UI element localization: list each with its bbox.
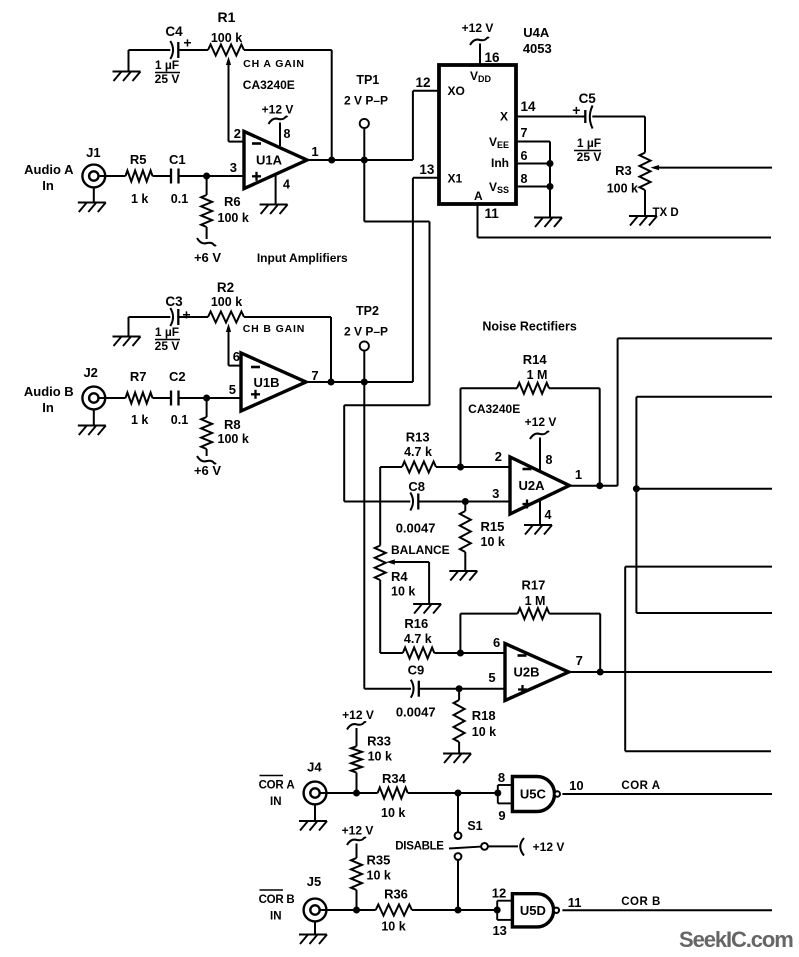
svg-text:R4: R4: [391, 569, 408, 584]
svg-text:2 V P–P: 2 V P–P: [344, 94, 388, 108]
node: pin6 junction: [547, 160, 554, 167]
svg-text:10: 10: [569, 778, 583, 793]
svg-text:BALANCE: BALANCE: [391, 543, 450, 557]
wire R7 to C2: [153, 397, 172, 399]
svg-text:12: 12: [492, 886, 506, 901]
svg-text:+12 V: +12 V: [462, 21, 494, 35]
svg-text:In: In: [42, 400, 54, 415]
resistor R33 10k: [351, 746, 362, 772]
svg-text:TP2: TP2: [356, 304, 379, 318]
svg-text:4053: 4053: [523, 41, 552, 56]
node: J5/R35 junction: [353, 907, 360, 914]
resistor R5 1k: [126, 171, 153, 182]
ground for J5: [314, 921, 316, 934]
svg-text:100 k: 100 k: [218, 432, 249, 446]
svg-text:6: 6: [233, 349, 240, 364]
svg-text:U5D: U5D: [520, 903, 546, 918]
svg-text:Noise Rectifiers: Noise Rectifiers: [482, 320, 577, 334]
node: J4/R33 junction: [353, 790, 360, 797]
op-amp U1A: [244, 131, 307, 188]
wire C4 to R1: [178, 49, 208, 51]
resistor R15 10k: [464, 502, 466, 512]
svg-text:3: 3: [230, 160, 237, 175]
resistor R7 1k: [126, 393, 153, 404]
svg-text:12: 12: [415, 75, 430, 90]
svg-text:4: 4: [545, 508, 552, 522]
feedback wire R1 to U1A output: [244, 49, 332, 51]
svg-text:R8: R8: [224, 417, 241, 432]
svg-text:14: 14: [520, 99, 536, 114]
NAND gate U5D input bracket: [494, 907, 501, 914]
svg-text:U2B: U2B: [513, 665, 539, 680]
svg-text:X1: X1: [448, 172, 463, 186]
svg-text:7: 7: [576, 653, 583, 668]
ground for pins 7/6/8: [534, 217, 562, 219]
node: R13/R14/pin2 junction: [457, 464, 464, 471]
svg-text:11: 11: [568, 895, 582, 910]
wiper arrow of R2: [228, 331, 230, 366]
svg-text:R5: R5: [130, 152, 147, 167]
svg-text:1 k: 1 k: [131, 413, 148, 427]
svg-text:J4: J4: [307, 760, 322, 775]
svg-text:25 V: 25 V: [577, 150, 602, 164]
U2A output wiring: [569, 485, 617, 487]
svg-text:R17: R17: [521, 578, 545, 593]
ground for R15: [449, 570, 477, 572]
svg-text:1 M: 1 M: [525, 594, 546, 608]
wire J4 to R34: [320, 792, 378, 794]
node: TP1 junction: [361, 157, 368, 164]
R3 wiper to TX D line: [654, 167, 772, 169]
R4 wiper to ground: [390, 561, 429, 563]
svg-text:+: +: [572, 102, 580, 118]
svg-text:5: 5: [229, 382, 236, 397]
svg-text:R35: R35: [367, 853, 391, 868]
resistor R35 10k: [351, 858, 362, 890]
svg-text:J5: J5: [307, 874, 321, 889]
potentiometer R3 100k: [640, 153, 651, 190]
pin 3 wire: [207, 175, 244, 177]
svg-text:+12 V: +12 V: [525, 415, 557, 429]
ground for C3: [129, 316, 171, 318]
svg-text:8: 8: [546, 453, 553, 467]
svg-text:Inh: Inh: [491, 156, 509, 170]
svg-text:8: 8: [498, 770, 505, 785]
svg-text:0.1: 0.1: [171, 192, 188, 206]
node: U1B out / feedback: [328, 379, 335, 386]
ground for J4: [314, 804, 316, 820]
svg-text:TX D: TX D: [653, 207, 679, 219]
svg-text:5: 5: [488, 670, 495, 685]
svg-text:100 k: 100 k: [218, 211, 249, 225]
wiper arrow of R1: [228, 64, 230, 142]
svg-text:+: +: [183, 35, 191, 51]
svg-text:1 M: 1 M: [527, 368, 548, 382]
resistor R8 100k to +6V: [206, 398, 208, 417]
svg-text:J1: J1: [86, 145, 100, 160]
node: TP2 junction: [361, 379, 368, 386]
svg-text:2 V P–P: 2 V P–P: [344, 325, 388, 339]
svg-text:16: 16: [485, 50, 501, 65]
svg-text:Audio B: Audio B: [24, 384, 74, 399]
wire U1B output to riser: [306, 381, 413, 383]
+6 V terminal for R8: [197, 456, 216, 464]
ground for R18: [443, 753, 471, 755]
resistor R36 10k: [376, 905, 412, 916]
svg-text:C2: C2: [169, 369, 186, 384]
svg-text:+12 V: +12 V: [342, 824, 374, 838]
potentiometer R4 10k BALANCE: [375, 546, 386, 581]
svg-text:C4: C4: [165, 24, 183, 39]
svg-text:CA3240E: CA3240E: [468, 402, 520, 416]
pins 7,6,8 tied to ground: [516, 141, 550, 143]
svg-text:7: 7: [311, 368, 318, 383]
capacitor C2 0.1: [170, 391, 172, 406]
svg-text:9: 9: [498, 808, 505, 823]
svg-text:SeekIC.com: SeekIC.com: [679, 927, 793, 952]
svg-text:R6: R6: [224, 194, 241, 209]
NAND gate U5C: [512, 777, 554, 812]
svg-text:7: 7: [521, 126, 528, 140]
pin 14 wire to C5: [516, 116, 585, 118]
svg-text:COR A: COR A: [621, 780, 660, 792]
node: junction C1/R6/pin3: [203, 173, 210, 180]
svg-text:DISABLE: DISABLE: [395, 841, 444, 853]
svg-text:8: 8: [521, 172, 528, 186]
R3 ground: [644, 190, 646, 216]
svg-text:R14: R14: [523, 352, 548, 367]
svg-text:1: 1: [575, 467, 582, 482]
pin 4 ground for U2A: [539, 501, 541, 525]
svg-text:10 k: 10 k: [391, 585, 415, 599]
svg-text:R33: R33: [367, 734, 391, 749]
svg-text:R36: R36: [384, 887, 408, 902]
svg-text:R18: R18: [472, 708, 496, 723]
pin 11 (A) wire: [477, 204, 479, 238]
op-amp U2A: [510, 457, 569, 514]
svg-text:4.7 k: 4.7 k: [404, 632, 432, 646]
svg-text:In: In: [42, 178, 54, 193]
capacitor C1 0.1: [170, 169, 172, 184]
svg-text:XO: XO: [448, 84, 465, 98]
svg-text:X: X: [500, 110, 508, 124]
svg-text:0.0047: 0.0047: [396, 705, 436, 720]
svg-text:13: 13: [492, 923, 506, 938]
wire J2 to R7: [99, 397, 126, 399]
svg-text:+12 V: +12 V: [342, 708, 374, 722]
svg-text:0.1: 0.1: [171, 413, 188, 427]
wire C5 to R3: [592, 116, 645, 118]
svg-text:R3: R3: [615, 163, 632, 178]
capacitor C9 0.0047: [411, 680, 414, 698]
svg-text:25 V: 25 V: [155, 339, 180, 353]
wire U1A output to pin12 riser: [307, 159, 413, 161]
ground for J1: [93, 187, 95, 202]
svg-text:100 k: 100 k: [211, 295, 242, 309]
node: C9/R18/pin5 junction: [456, 685, 463, 692]
svg-text:+6 V: +6 V: [194, 250, 221, 265]
svg-text:A: A: [286, 780, 294, 792]
svg-text:U1B: U1B: [253, 375, 279, 390]
svg-text:1 k: 1 k: [131, 192, 148, 206]
svg-text:U2A: U2A: [518, 478, 545, 493]
node: junction C2/R8/pin5: [203, 395, 210, 402]
svg-text:10 k: 10 k: [381, 920, 405, 934]
svg-text:6: 6: [521, 149, 528, 163]
wire TP2 net down to C9: [363, 382, 365, 689]
svg-text:0.0047: 0.0047: [396, 521, 436, 536]
svg-text:CA3240E: CA3240E: [243, 78, 295, 92]
svg-text:R16: R16: [404, 616, 428, 631]
svg-text:+6 V: +6 V: [194, 463, 221, 478]
svg-text:U1A: U1A: [256, 153, 283, 168]
svg-text:10 k: 10 k: [381, 806, 405, 820]
ground for J2: [93, 409, 95, 425]
wire C2 to U1B pin5: [179, 397, 207, 399]
resistor R34 10k: [378, 788, 408, 799]
svg-text:10 k: 10 k: [481, 535, 505, 549]
+6 V terminal: [197, 238, 216, 246]
svg-text:U5C: U5C: [520, 787, 547, 802]
capacitor C4: [170, 41, 173, 59]
node: R16/R17/pin6 junction: [457, 650, 464, 657]
svg-text:1 µF: 1 µF: [577, 136, 601, 150]
node: U2B out/feedback junction: [597, 669, 604, 676]
wire C1 to U1A pin3: [179, 175, 207, 177]
node: R34/S1/U5C junction: [455, 790, 462, 797]
resistor R2 100k (CH B GAIN pot): [208, 312, 244, 323]
node: U1A out / feedback: [328, 157, 335, 164]
svg-text:R34: R34: [382, 771, 407, 786]
svg-text:2: 2: [495, 449, 502, 464]
wire J5 to R36: [320, 909, 376, 911]
balance rail from R13 down to R16: [379, 467, 381, 546]
node: R36/S1/U5D junction: [455, 907, 462, 914]
svg-text:4: 4: [283, 178, 290, 192]
capacitor C3: [170, 308, 173, 326]
feedback wire R2 to U1B output: [244, 316, 331, 318]
resistor R1 100k (CH A GAIN pot): [208, 45, 244, 56]
svg-text:8: 8: [284, 127, 291, 141]
svg-text:1: 1: [311, 144, 318, 159]
svg-text:+12 V: +12 V: [262, 103, 294, 117]
svg-text:R2: R2: [217, 280, 234, 295]
svg-text:1 µF: 1 µF: [155, 58, 179, 72]
svg-text:+: +: [182, 307, 190, 323]
svg-text:100 k: 100 k: [211, 31, 242, 45]
svg-text:J2: J2: [83, 365, 97, 380]
wire R5 to C1: [153, 175, 172, 177]
svg-text:13: 13: [419, 162, 435, 177]
pin 6 wire: [229, 365, 242, 367]
NAND gate U5C input bracket: [494, 790, 501, 797]
svg-text:B: B: [286, 894, 294, 906]
svg-text:CH B GAIN: CH B GAIN: [243, 323, 305, 335]
svg-text:100 k: 100 k: [607, 182, 638, 196]
op-amp U1B: [241, 353, 306, 411]
svg-text:IN: IN: [270, 796, 282, 808]
resistor R18 10k: [458, 689, 460, 700]
svg-text:U4A: U4A: [523, 25, 550, 40]
svg-text:S1: S1: [467, 819, 482, 833]
svg-text:+12 V: +12 V: [533, 840, 565, 854]
svg-text:Audio A: Audio A: [24, 162, 74, 177]
svg-text:A: A: [474, 189, 483, 203]
svg-text:CH A GAIN: CH A GAIN: [243, 58, 305, 70]
pin 2 wire: [229, 141, 245, 143]
second bus line: [625, 566, 772, 568]
svg-text:Input Amplifiers: Input Amplifiers: [257, 251, 348, 265]
output bus of U2A area (to right edge): [636, 396, 772, 398]
svg-text:C9: C9: [408, 663, 425, 678]
svg-text:R15: R15: [481, 519, 505, 534]
svg-text:TP1: TP1: [356, 73, 379, 87]
svg-text:1 µF: 1 µF: [155, 325, 179, 339]
op-amp U2B: [505, 644, 569, 701]
svg-text:C5: C5: [579, 91, 597, 106]
svg-text:4.7 k: 4.7 k: [404, 445, 432, 459]
NAND gate U5D: [512, 894, 553, 927]
node: pin8 junction: [547, 183, 554, 190]
svg-text:10 k: 10 k: [472, 725, 496, 739]
svg-text:R13: R13: [406, 430, 430, 445]
svg-text:11: 11: [485, 206, 500, 221]
pin 5 wire: [207, 397, 241, 399]
node: output/feedback junction: [596, 482, 603, 489]
svg-text:2: 2: [234, 126, 241, 141]
svg-text:6: 6: [493, 635, 500, 650]
node: C8/R15/pin3 junction: [462, 498, 469, 505]
svg-text:25 V: 25 V: [155, 72, 180, 86]
svg-text:10 k: 10 k: [368, 750, 392, 764]
svg-text:C3: C3: [165, 294, 183, 309]
svg-text:COR: COR: [259, 894, 285, 906]
ground for C4: [129, 49, 171, 51]
capacitor C8 0.0047: [344, 501, 410, 503]
svg-text:3: 3: [492, 486, 499, 501]
pin 4 ground stem: [275, 173, 277, 204]
wire J1 to R5: [99, 175, 126, 177]
wire U1A out down to C8 (channel A to noise rect): [363, 160, 365, 222]
svg-text:R1: R1: [218, 9, 236, 25]
svg-text:10 k: 10 k: [367, 869, 391, 883]
wire riser to U4A pin 12: [412, 91, 414, 160]
svg-text:C8: C8: [408, 479, 425, 494]
IC U4A box: [439, 65, 516, 204]
svg-text:R7: R7: [130, 369, 147, 384]
svg-text:COR B: COR B: [621, 896, 661, 908]
svg-text:COR: COR: [259, 780, 285, 792]
riser to U4A pin 13: [412, 178, 414, 382]
node: bus junction: [633, 485, 640, 492]
switch S1 DISABLE: [457, 793, 459, 832]
svg-text:C1: C1: [169, 152, 186, 167]
resistor R6 100k to +6V: [206, 176, 208, 195]
svg-text:IN: IN: [270, 911, 282, 923]
wire C3 to R2: [178, 316, 208, 318]
U2B output wiring: [569, 671, 772, 673]
